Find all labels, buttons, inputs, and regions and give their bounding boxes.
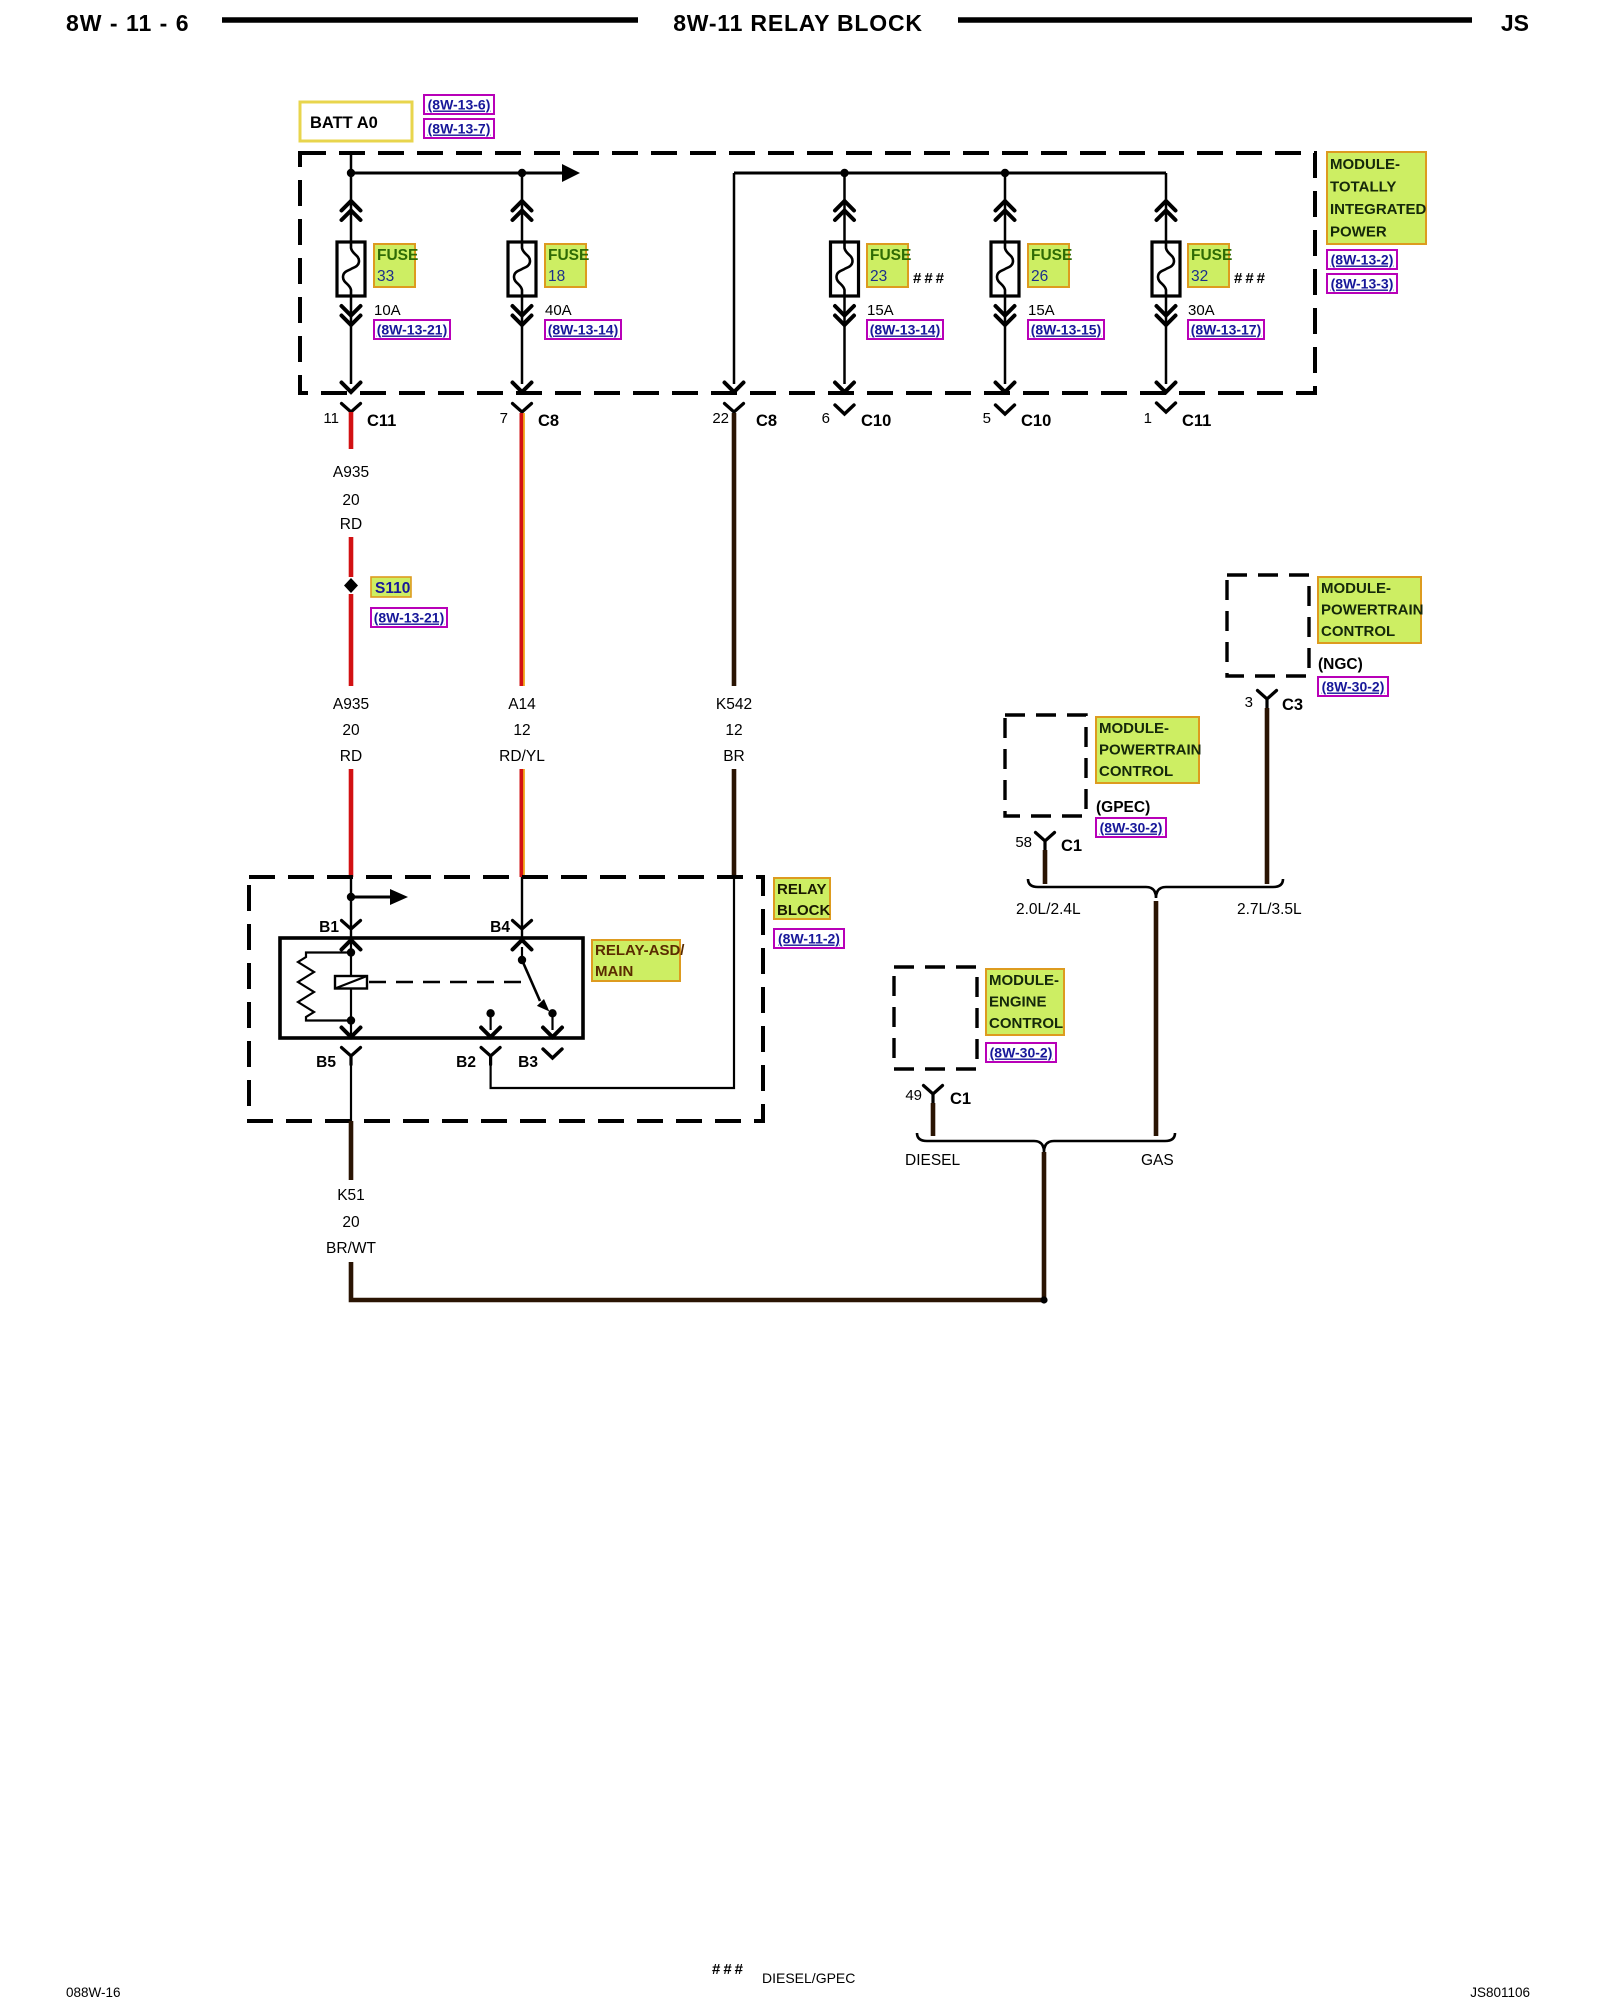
pin B3 [518, 1049, 562, 1071]
relay terminal arrow B3 [543, 1028, 562, 1038]
wire A14 RD/YL segment 1 [521, 413, 524, 686]
svg-text:RELAY-ASD/: RELAY-ASD/ [595, 942, 685, 959]
label S110 [371, 577, 411, 597]
link 8W-11-2 [774, 929, 844, 948]
svg-text:BR: BR [723, 748, 745, 765]
svg-text:32: 32 [1191, 268, 1208, 285]
fuse F23 body [831, 242, 859, 296]
relay coil wire [350, 940, 352, 1036]
svg-text:FUSE: FUSE [1191, 247, 1232, 264]
wire A935 RD segment 4 [349, 769, 354, 877]
terminal chevrons above fuse23 [835, 201, 854, 211]
wire K51 BR/WT segment 1 [349, 1121, 354, 1180]
svg-text:(8W-13-14): (8W-13-14) [870, 322, 941, 338]
wire bus B horizontal [734, 172, 1166, 175]
wire B4 lead [521, 877, 523, 938]
link 8W-13-14 (F23) [867, 320, 943, 339]
svg-text:TOTALLY: TOTALLY [1330, 179, 1396, 196]
fuse F26 label [1028, 244, 1072, 287]
label A935 20 RD lower [333, 696, 369, 765]
svg-text:B1: B1 [319, 919, 339, 936]
svg-text:FUSE: FUSE [870, 247, 911, 264]
module powertrain control GPEC dashed box [1005, 715, 1086, 816]
svg-text:1: 1 [1144, 410, 1152, 427]
label K51 20 BR/WT [326, 1187, 376, 1257]
node switch pivot [518, 956, 526, 964]
pin B2 [456, 1048, 500, 1072]
fuse F18 body [508, 242, 536, 296]
svg-text:MODULE-: MODULE- [989, 972, 1059, 989]
svg-text:C10: C10 [1021, 412, 1051, 430]
wire end arrow at C10 pin6 [835, 383, 854, 393]
relay coil element [335, 976, 367, 989]
svg-text:58: 58 [1015, 834, 1032, 851]
terminal chevrons below fuse23 [835, 306, 854, 316]
svg-text:11: 11 [323, 410, 339, 427]
svg-text:CONTROL: CONTROL [1099, 763, 1173, 780]
link 8W-13-6 [424, 95, 494, 114]
wire B1 lead [350, 877, 352, 938]
svg-text:CONTROL: CONTROL [1321, 623, 1395, 640]
label K542 12 BR [716, 696, 752, 765]
svg-text:5: 5 [983, 410, 991, 427]
relay block label [774, 878, 830, 919]
link 8W-30-2 (GPEC) [1096, 818, 1166, 837]
svg-text:20: 20 [342, 722, 360, 739]
terminal chevrons above fuse33 [342, 201, 361, 211]
wire K542 BR segment 2 [732, 769, 737, 877]
svg-text:MODULE-: MODULE- [1330, 156, 1400, 173]
wire A935 RD segment 1 [349, 412, 354, 449]
svg-text:MODULE-: MODULE- [1321, 580, 1391, 597]
node contact B2 [486, 1009, 494, 1017]
wire A935 RD segment 2 [349, 537, 354, 577]
svg-text:C1: C1 [950, 1090, 971, 1108]
svg-text:10A: 10A [374, 302, 401, 319]
svg-text:23: 23 [870, 268, 887, 285]
node junction B1 arrow tap [347, 893, 355, 901]
module GPEC label [1096, 717, 1202, 783]
node junction fuse23 tap [840, 169, 848, 177]
svg-text:22: 22 [712, 410, 729, 427]
svg-text:(8W-11-2): (8W-11-2) [778, 931, 840, 947]
wire end arrow at C8 pin7 [513, 383, 532, 393]
svg-text:B4: B4 [490, 919, 510, 936]
wire bus A horizontal [351, 172, 562, 175]
wire K542 BR segment 1 [732, 413, 737, 686]
wire B5 lead inside relay block [350, 1064, 352, 1121]
module powertrain control NGC dashed box [1227, 575, 1309, 676]
relay label RELAY-ASD/MAIN [592, 940, 685, 981]
link 8W-13-3 [1327, 274, 1397, 293]
wire below fuse18 [521, 296, 524, 384]
svg-text:26: 26 [1031, 268, 1048, 285]
svg-text:B3: B3 [518, 1054, 538, 1071]
splice S110 [344, 578, 358, 593]
svg-text:RELAY: RELAY [777, 881, 826, 898]
svg-text:20: 20 [342, 1214, 360, 1231]
relay RELAY-ASD/MAIN outline [280, 938, 583, 1038]
fuse F32 body [1152, 242, 1180, 296]
svg-text:POWER: POWER [1330, 224, 1387, 241]
svg-text:###: ### [913, 270, 947, 287]
link 8W-30-2 (engine) [986, 1043, 1056, 1062]
svg-text:B2: B2 [456, 1054, 476, 1071]
svg-text:K542: K542 [716, 696, 752, 713]
svg-text:(8W-13-17): (8W-13-17) [1191, 322, 1262, 338]
brace engine sizes [1028, 879, 1283, 898]
relay armature linkage dashed [369, 981, 528, 983]
svg-text:K51: K51 [337, 1187, 365, 1204]
svg-text:33: 33 [377, 268, 394, 285]
relay block dashed box [249, 877, 763, 1121]
arrow bus A continuation [562, 164, 580, 182]
wire below fuse26 [1004, 296, 1007, 384]
svg-text:FUSE: FUSE [1031, 247, 1072, 264]
svg-text:(8W-30-2): (8W-30-2) [1100, 820, 1163, 836]
svg-text:(8W-13-21): (8W-13-21) [377, 322, 448, 338]
link 8W-13-15 (F26) [1028, 320, 1104, 339]
wire below fuse32 [1165, 296, 1168, 384]
svg-text:C8: C8 [756, 412, 777, 430]
wire below fuse23 [843, 296, 846, 384]
wire below fuse33 [350, 296, 353, 384]
svg-text:S110: S110 [375, 580, 410, 597]
svg-text:C1: C1 [1061, 837, 1082, 855]
relay switch blade [522, 960, 540, 1001]
node junction batt bus left [347, 169, 355, 177]
brace fuel types [917, 1133, 1175, 1152]
wire A14 RD/YL segment 2 [521, 769, 524, 877]
svg-text:###: ### [1234, 270, 1268, 287]
svg-text:BATT A0: BATT A0 [310, 114, 378, 132]
module engine control label [986, 969, 1064, 1035]
svg-text:BLOCK: BLOCK [777, 902, 830, 919]
pin B4 [490, 919, 531, 936]
svg-text:MODULE-: MODULE- [1099, 720, 1169, 737]
fuse F23 label [867, 244, 911, 287]
svg-text:GAS: GAS [1141, 1152, 1174, 1169]
svg-text:2.0L/2.4L: 2.0L/2.4L [1016, 901, 1081, 918]
wire A935 RD segment 3 [349, 594, 354, 686]
resistor in relay [298, 953, 351, 1021]
link 8W-13-14 (F18) [545, 320, 621, 339]
battery feed label BATT A0 [300, 102, 412, 141]
relay terminal arrow B5 [342, 1028, 361, 1038]
wire B2 stub [490, 1013, 492, 1030]
terminal chevrons above fuse18 [513, 201, 532, 211]
relay terminal arrow B2 [481, 1028, 500, 1038]
svg-text:RD: RD [340, 516, 362, 533]
svg-text:(NGC): (NGC) [1318, 656, 1363, 673]
link 8W-30-2 (NGC) [1318, 677, 1388, 696]
fuse F33 label [374, 244, 418, 287]
module engine control dashed box [894, 967, 977, 1069]
svg-text:12: 12 [513, 722, 530, 739]
fuse F32 label [1188, 244, 1232, 287]
connector C8 pin 7 [500, 404, 559, 431]
svg-text:B5: B5 [316, 1054, 336, 1071]
node junction fuse26 tap [1001, 169, 1009, 177]
svg-text:BR/WT: BR/WT [326, 1240, 376, 1257]
wire end arrow at C11 pin11 [342, 383, 361, 393]
terminal chevrons above fuse26 [996, 201, 1015, 211]
link 8W-13-17 (F32) [1188, 320, 1264, 339]
svg-text:DIESEL/GPEC: DIESEL/GPEC [762, 1970, 855, 1986]
wire GAS from brace [1154, 901, 1159, 1136]
wire end arrow at C10 pin5 [996, 383, 1015, 393]
svg-text:(8W-30-2): (8W-30-2) [990, 1045, 1053, 1061]
svg-text:(8W-13-7): (8W-13-7) [428, 121, 491, 137]
fuse F18 label [545, 244, 589, 287]
svg-text:JS801106: JS801106 [1470, 1985, 1530, 2000]
wire C3 to brace 2.7L/3.5L [1265, 708, 1270, 884]
wire C8 pin22 drop [733, 173, 736, 384]
svg-text:49: 49 [905, 1087, 922, 1104]
link 8W-13-21 (S110) [371, 608, 447, 627]
connector C1 pin 58 [1015, 833, 1082, 856]
svg-text:A14: A14 [508, 696, 536, 713]
svg-text:FUSE: FUSE [548, 247, 589, 264]
svg-text:(GPEC): (GPEC) [1096, 799, 1150, 816]
wire end arrow at C8 pin22 [725, 383, 744, 393]
link 8W-13-2 [1327, 250, 1397, 269]
svg-text:15A: 15A [867, 302, 894, 319]
svg-text:POWERTRAIN: POWERTRAIN [1099, 742, 1202, 759]
svg-text:(8W-13-21): (8W-13-21) [374, 610, 445, 626]
svg-text:8W-11 RELAY BLOCK: 8W-11 RELAY BLOCK [673, 10, 923, 36]
wire fuse32 drop [1165, 173, 1168, 242]
svg-text:2.7L/3.5L: 2.7L/3.5L [1237, 901, 1302, 918]
relay terminal arrow B4 [513, 940, 532, 950]
connector C3 pin 3 [1245, 691, 1303, 715]
svg-text:C8: C8 [538, 412, 559, 430]
header rule right [958, 17, 1472, 23]
svg-text:15A: 15A [1028, 302, 1055, 319]
svg-text:3: 3 [1245, 694, 1253, 711]
node coil bottom junction [347, 1016, 355, 1024]
svg-text:30A: 30A [1188, 302, 1215, 319]
relay switch common lead [521, 947, 523, 960]
wire fuse23 drop [843, 173, 846, 242]
svg-text:40A: 40A [545, 302, 572, 319]
terminal chevrons above fuse32 [1157, 201, 1176, 211]
svg-text:INTEGRATED: INTEGRATED [1330, 201, 1427, 218]
node K51 corner [1040, 1296, 1047, 1303]
svg-text:JS: JS [1501, 10, 1529, 36]
svg-text:18: 18 [548, 268, 565, 285]
svg-text:7: 7 [500, 410, 508, 427]
label A935 20 RD upper [333, 464, 369, 533]
wire K542 inside relay block to B2 [491, 877, 734, 1088]
wire fuse26 drop [1004, 173, 1007, 242]
wire B3 stub [551, 1013, 553, 1030]
link 8W-13-7 [424, 119, 494, 138]
svg-text:088W-16: 088W-16 [66, 1985, 121, 2000]
connector C1 pin 49 [905, 1086, 971, 1109]
svg-text:C3: C3 [1282, 696, 1303, 714]
wire end arrow at C11 pin1 [1157, 383, 1176, 393]
node junction fuse18 tap [518, 169, 526, 177]
svg-text:(8W-30-2): (8W-30-2) [1322, 679, 1385, 695]
svg-text:MAIN: MAIN [595, 963, 633, 980]
svg-text:(8W-13-2): (8W-13-2) [1331, 252, 1394, 268]
svg-text:POWERTRAIN: POWERTRAIN [1321, 602, 1424, 619]
svg-text:(8W-13-6): (8W-13-6) [428, 97, 491, 113]
node coil top junction [347, 948, 355, 956]
module NGC label [1318, 577, 1424, 643]
svg-text:RD/YL: RD/YL [499, 748, 545, 765]
wire C1-58 to brace 2.0L/2.4L [1043, 850, 1048, 884]
svg-text:A935: A935 [333, 696, 369, 713]
svg-text:A935: A935 [333, 464, 369, 481]
connector C10 pin 6 [822, 405, 892, 430]
connector C8 pin 22 [712, 404, 777, 431]
terminal chevrons below fuse18 [513, 306, 532, 316]
fuse F26 body [991, 242, 1019, 296]
svg-text:(8W-13-14): (8W-13-14) [548, 322, 619, 338]
connector C10 pin 5 [983, 405, 1052, 430]
svg-text:RD: RD [340, 748, 362, 765]
label A14 12 RD/YL [499, 696, 545, 765]
fuse F33 body [337, 242, 365, 296]
wire fuse18 drop [521, 173, 524, 242]
svg-text:C10: C10 [861, 412, 891, 430]
arrow B1 continuation [351, 896, 390, 899]
svg-text:(8W-13-15): (8W-13-15) [1031, 322, 1102, 338]
module TIPM label [1327, 152, 1427, 244]
svg-text:CONTROL: CONTROL [989, 1015, 1063, 1032]
pin B5 [316, 1048, 360, 1072]
svg-text:(8W-13-3): (8W-13-3) [1331, 276, 1394, 292]
svg-text:8W - 11 - 6: 8W - 11 - 6 [66, 10, 189, 36]
wire batt feed vertical into TIPM [350, 153, 353, 242]
svg-text:C11: C11 [367, 412, 396, 430]
wire C1-49 to brace DIESEL [931, 1103, 936, 1136]
header rule left [222, 17, 638, 23]
svg-text:ENGINE: ENGINE [989, 994, 1047, 1011]
svg-text:12: 12 [725, 722, 742, 739]
svg-text:DIESEL: DIESEL [905, 1152, 961, 1169]
terminal chevrons below fuse26 [996, 306, 1015, 316]
connector C11 pin 1 [1144, 403, 1212, 430]
svg-text:20: 20 [342, 492, 360, 509]
svg-text:###: ### [712, 1961, 746, 1978]
connector C11 pin 11 [323, 404, 396, 431]
svg-text:FUSE: FUSE [377, 247, 418, 264]
wire K51 BR/WT run to engine controllers [351, 1152, 1044, 1300]
relay terminal arrow B1 [342, 940, 361, 950]
svg-text:6: 6 [822, 410, 830, 427]
svg-text:C11: C11 [1182, 412, 1211, 430]
pin B1 [319, 919, 360, 936]
node switch contact B3 [548, 1009, 556, 1017]
terminal chevrons below fuse32 [1157, 306, 1176, 316]
module totally integrated power dashed box [300, 153, 1315, 393]
link 8W-13-21 (F33) [374, 320, 450, 339]
terminal chevrons below fuse33 [342, 306, 361, 316]
